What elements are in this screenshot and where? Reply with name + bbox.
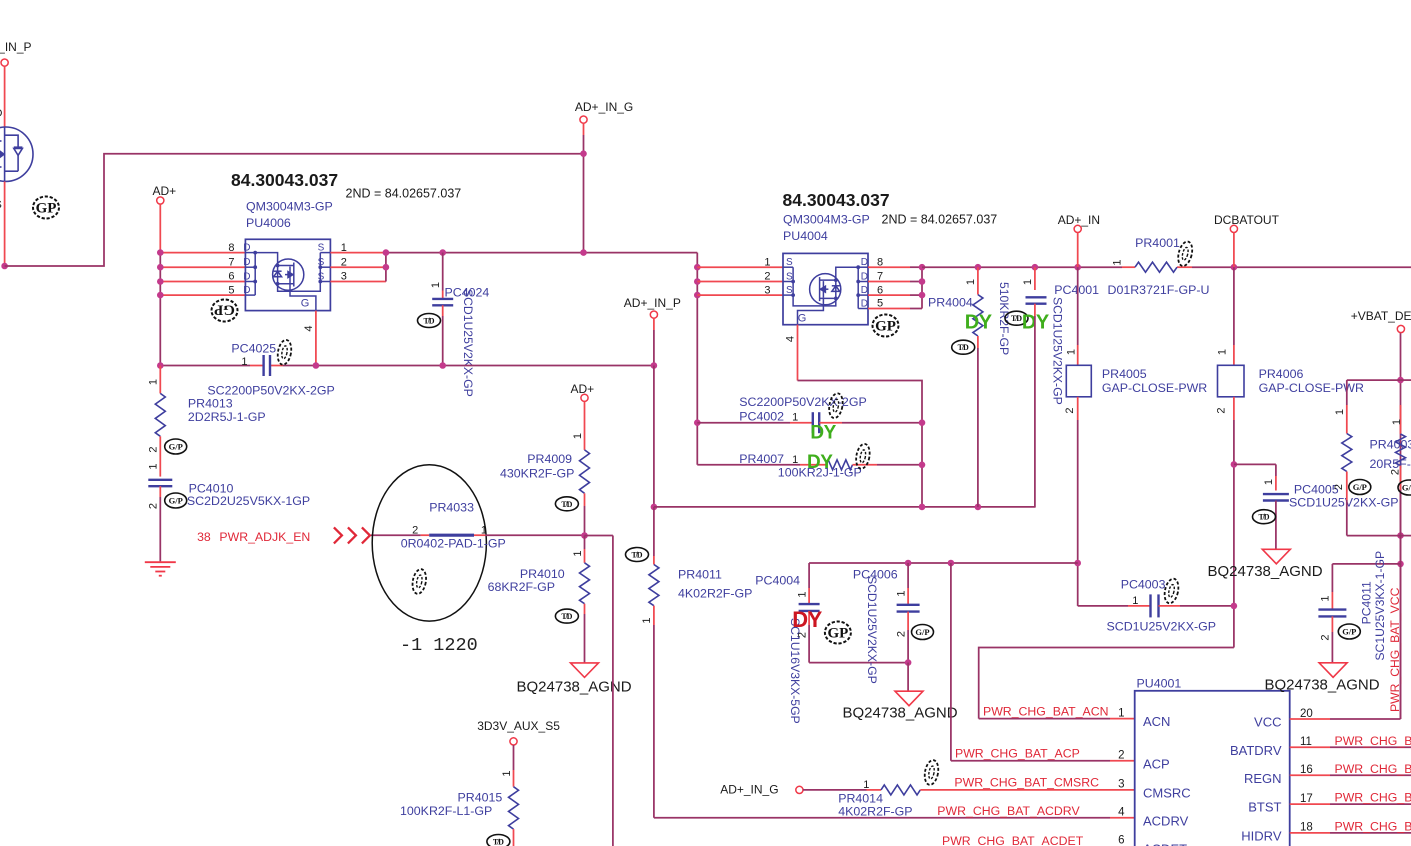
svg-text:D: D <box>861 299 868 310</box>
svg-text:D: D <box>0 108 3 120</box>
transistor PU4006 (dual MOSFET package) <box>245 239 330 310</box>
svg-text:S: S <box>318 272 325 283</box>
component PR4006 GAP-CLOSE-PWR box <box>1218 365 1245 397</box>
svg-text:PR4004: PR4004 <box>928 296 973 310</box>
svg-text:PWR_CHG_BAT_CMSRC: PWR_CHG_BAT_CMSRC <box>954 776 1099 790</box>
node junction PC4004/PC4006 bottom <box>905 659 912 666</box>
svg-text:PWR_CHG_BA: PWR_CHG_BA <box>1335 734 1411 748</box>
svg-text:DY: DY <box>965 312 993 334</box>
svg-text:1: 1 <box>1320 595 1332 601</box>
svg-text:VCC: VCC <box>1254 715 1281 730</box>
svg-text:1: 1 <box>148 463 160 469</box>
wire D-tie riser right of PU4004 <box>921 267 923 308</box>
svg-text:SCD1U25V2KX-GP: SCD1U25V2KX-GP <box>1289 496 1399 510</box>
node junction PR4006/PC4005 branch <box>1231 461 1238 468</box>
svg-text:QM3004M3-GP: QM3004M3-GP <box>783 213 870 227</box>
svg-text:D: D <box>861 272 868 283</box>
svg-text:1: 1 <box>764 256 770 268</box>
svg-text:D01R3721F-GP-U: D01R3721F-GP-U <box>1108 283 1210 297</box>
svg-text:PC4002: PC4002 <box>739 410 784 424</box>
svg-text:BQ24738_AGND: BQ24738_AGND <box>843 705 958 722</box>
wire PR4006 down <box>1233 397 1235 420</box>
svg-text:PC4003: PC4003 <box>1121 578 1166 592</box>
svg-text:2ND = 84.02657.037: 2ND = 84.02657.037 <box>882 213 998 227</box>
svg-text:1: 1 <box>481 525 487 537</box>
svg-text:T̸D: T̸D <box>561 612 572 621</box>
node junction AD+_IN_P bottom bus <box>651 504 658 511</box>
svg-text:SC2200P50V2KX-2GP: SC2200P50V2KX-2GP <box>739 395 866 409</box>
svg-text:GP: GP <box>827 626 848 642</box>
wire lower bus AD+ to AD+_IN_P column <box>160 365 250 367</box>
svg-text:S: S <box>0 199 2 211</box>
svg-text:1: 1 <box>965 279 977 285</box>
svg-text:T̸D: T̸D <box>423 317 434 326</box>
node junction PR4005/PC4006 row <box>1074 560 1081 567</box>
wire DCBATOUT down to PR4006 <box>1233 267 1235 345</box>
svg-text:PR4014: PR4014 <box>838 792 883 806</box>
wire VCC row and +VBAT riser <box>1290 718 1330 720</box>
svg-text:SC2D2U25V5KX-1GP: SC2D2U25V5KX-1GP <box>187 494 310 508</box>
svg-text:D: D <box>243 285 250 296</box>
wire riser between junctions <box>1400 536 1402 564</box>
capacitor PC4024 <box>442 253 444 291</box>
svg-text:PC4005: PC4005 <box>1294 483 1339 497</box>
svg-text:SCD1U25V2KX-GP: SCD1U25V2KX-GP <box>865 576 879 684</box>
svg-text:S: S <box>318 243 325 254</box>
svg-text:CMSRC: CMSRC <box>1143 786 1191 801</box>
svg-text:ACN: ACN <box>1143 714 1170 729</box>
svg-text:1: 1 <box>572 433 584 439</box>
svg-text:T̸D: T̸D <box>493 838 504 846</box>
svg-text:-1 1220: -1 1220 <box>400 635 478 656</box>
svg-text:PU4004: PU4004 <box>783 229 828 243</box>
svg-text:GP: GP <box>36 201 57 217</box>
svg-text:20R5F-G: 20R5F-G <box>1370 457 1411 471</box>
capacitor PC4002 <box>697 422 790 424</box>
stamp GP small PC4006 <box>912 625 934 640</box>
wire PU4006 pin2 row <box>330 266 385 268</box>
svg-text:6: 6 <box>1118 835 1124 846</box>
svg-text:1: 1 <box>148 379 160 385</box>
svg-text:D: D <box>243 272 250 283</box>
resistor PR4010 <box>584 536 586 550</box>
svg-text:PC4004: PC4004 <box>755 574 800 588</box>
svg-text:2: 2 <box>1333 484 1345 490</box>
capacitor PC4005 <box>1234 463 1276 465</box>
svg-text:AD+_IN_G: AD+_IN_G <box>575 100 633 114</box>
stamp GP PU4004 <box>873 315 899 337</box>
svg-text:PR4007: PR4007 <box>739 452 784 466</box>
svg-text:2: 2 <box>1320 634 1332 640</box>
svg-text:AD+_IN_P: AD+_IN_P <box>624 296 681 310</box>
svg-text:PR4009: PR4009 <box>527 452 572 466</box>
svg-text:2: 2 <box>1390 469 1402 475</box>
ground BQ24738_AGND (PC4011) <box>1319 663 1347 678</box>
svg-text:PWR_CHG_BAT_ACDET: PWR_CHG_BAT_ACDET <box>942 834 1084 846</box>
svg-text:T̸D: T̸D <box>1011 314 1022 323</box>
svg-text:PC4011: PC4011 <box>1359 581 1373 624</box>
stamp dashed PC4025 <box>276 339 293 366</box>
svg-text:2: 2 <box>148 446 160 452</box>
stamp GP PU4006 (rotated) <box>212 300 238 322</box>
capacitor PC4025 <box>262 355 264 376</box>
svg-text:5: 5 <box>228 284 234 296</box>
wire PU4006 pin3 row with riser <box>330 281 386 283</box>
svg-text:G/P: G/P <box>1353 482 1367 492</box>
svg-text:1: 1 <box>792 412 798 424</box>
svg-text:T̸D: T̸D <box>631 551 642 560</box>
svg-text:20: 20 <box>1300 708 1313 720</box>
stamp TD near DY <box>1005 311 1028 325</box>
resistor PR4033 (0 ohm jumper) <box>421 534 430 536</box>
node junctions S-bus rows <box>694 264 701 271</box>
resistor PR4007 <box>697 464 800 466</box>
svg-text:D: D <box>243 243 250 254</box>
svg-text:T̸D: T̸D <box>958 343 969 352</box>
node junctions D-tie <box>919 264 926 271</box>
svg-text:3: 3 <box>764 284 770 296</box>
svg-text:T̸D: T̸D <box>561 500 572 509</box>
capacitor PC4004 <box>808 563 810 588</box>
svg-text:1: 1 <box>1111 259 1123 265</box>
svg-text:68KR2F-GP: 68KR2F-GP <box>488 580 555 594</box>
svg-text:BQ24738_AGND: BQ24738_AGND <box>1208 563 1323 580</box>
stamp GP small PC4010 <box>165 493 187 508</box>
wire DCBATOUT branch to ACN <box>979 648 1234 719</box>
svg-text:GAP-CLOSE-PWR: GAP-CLOSE-PWR <box>1259 381 1364 395</box>
svg-text:2: 2 <box>148 503 160 509</box>
svg-text:SCD1U25V2KX-GP: SCD1U25V2KX-GP <box>461 289 475 397</box>
stamp GP small PR4013 <box>165 439 187 454</box>
svg-text:100KR2F-L1-GP: 100KR2F-L1-GP <box>400 804 492 818</box>
node junction AD+_IN_P lower bus <box>651 362 658 369</box>
resistor PR4011 <box>653 507 655 556</box>
svg-text:SCD1U25V2KX-GP: SCD1U25V2KX-GP <box>1051 297 1065 405</box>
stamp TD PC4024 <box>418 314 441 328</box>
svg-text:AD+_IN_P: AD+_IN_P <box>0 40 32 54</box>
stamp GP small left resistor <box>1349 480 1371 495</box>
stamp dashed PR4007 <box>854 443 871 470</box>
svg-text:BQ24738_AGND: BQ24738_AGND <box>517 679 632 696</box>
wire PR4005 down <box>1077 397 1079 420</box>
wire AD+_IN down to PR4005 <box>1077 267 1079 345</box>
transistor PU4004 (dual MOSFET package, mirrored) <box>783 253 868 324</box>
svg-text:2: 2 <box>1118 750 1124 762</box>
stamp TD PR4011 <box>626 548 649 562</box>
svg-text:PWR_CHG_BA: PWR_CHG_BA <box>1335 819 1411 833</box>
svg-text:DY: DY <box>792 607 822 632</box>
node - junctions AD+ bus at pin rows <box>157 249 164 256</box>
svg-text:HIDRV: HIDRV <box>1241 828 1282 843</box>
svg-text:PR4006: PR4006 <box>1259 367 1304 381</box>
stamp TD PC4005 <box>1253 510 1276 524</box>
svg-text:2: 2 <box>412 525 418 537</box>
wire - left MOSFET source down <box>4 182 6 267</box>
wire PU4004 left pin rows 1 2 3 <box>697 266 783 268</box>
svg-text:3D3V_AUX_S5: 3D3V_AUX_S5 <box>477 719 560 733</box>
wire main bus AD+_IN / DCBATOUT <box>922 266 1122 268</box>
svg-text:1: 1 <box>501 770 513 776</box>
svg-text:BQ24738_AGND: BQ24738_AGND <box>1265 677 1380 694</box>
svg-text:7: 7 <box>228 256 234 268</box>
svg-text:DY: DY <box>1022 312 1050 334</box>
svg-text:PR4010: PR4010 <box>520 567 565 581</box>
svg-text:GP: GP <box>875 319 896 335</box>
svg-text:PR4013: PR4013 <box>188 397 233 411</box>
svg-text:REGN: REGN <box>1244 771 1282 786</box>
svg-text:S: S <box>318 257 325 268</box>
svg-text:PWR_CHG_BA: PWR_CHG_BA <box>1335 791 1411 805</box>
ellipse highlight around PR4033 <box>372 465 486 621</box>
node junctions +VBAT riser <box>1397 377 1404 384</box>
resistor PR4004 <box>977 267 979 294</box>
svg-text:2: 2 <box>1064 407 1076 413</box>
wire PC4006 to ground <box>907 663 909 692</box>
svg-text:3: 3 <box>1118 779 1124 791</box>
svg-text:2ND = 84.02657.037: 2ND = 84.02657.037 <box>346 187 462 201</box>
node junctions on pin1/pin2 rows <box>383 249 390 256</box>
stamp dashed PR4033 <box>411 568 428 595</box>
svg-text:1: 1 <box>1065 349 1077 355</box>
svg-text:PU4006: PU4006 <box>246 216 291 230</box>
svg-text:S: S <box>786 257 793 268</box>
svg-text:2: 2 <box>764 271 770 283</box>
svg-text:2: 2 <box>895 631 907 637</box>
ground earth symbol (PC4010) <box>145 561 176 563</box>
wire DCBATOUT vertical <box>1233 233 1235 268</box>
svg-text:0R0402-PAD-1-GP: 0R0402-PAD-1-GP <box>401 537 506 551</box>
wire ACP row <box>951 760 1110 762</box>
svg-text:G/P: G/P <box>1342 627 1356 637</box>
stamp TD PR4015 <box>487 835 510 846</box>
svg-text:1: 1 <box>572 550 584 556</box>
svg-text:T̸D: T̸D <box>1258 513 1269 522</box>
svg-text:S: S <box>786 272 793 283</box>
stamp TD PR4010 <box>555 609 578 623</box>
svg-text:G/P: G/P <box>915 627 929 637</box>
svg-text:PR4001: PR4001 <box>1135 236 1180 250</box>
svg-text:AD+: AD+ <box>153 184 177 198</box>
svg-text:1: 1 <box>1391 419 1403 425</box>
svg-text:84.30043.037: 84.30043.037 <box>783 190 890 210</box>
svg-text:4K02R2F-GP: 4K02R2F-GP <box>678 587 752 601</box>
stamp TD PR4009 <box>555 497 578 511</box>
stamp dashed PC4003 <box>1163 577 1181 604</box>
svg-text:18: 18 <box>1300 822 1313 834</box>
resistor parallel left (PR4003 pair) <box>1346 380 1348 405</box>
svg-text:1: 1 <box>430 282 442 288</box>
svg-text:SC2200P50V2KX-2GP: SC2200P50V2KX-2GP <box>207 384 334 398</box>
component PR4005 GAP-CLOSE-PWR box <box>1066 365 1091 397</box>
svg-text:G/P: G/P <box>1402 483 1411 493</box>
svg-text:1: 1 <box>1022 279 1034 285</box>
transistor Q left (partial, cut by edge) <box>0 127 33 182</box>
wire - left MOSFET drain from port <box>4 66 6 127</box>
wire ACP drop <box>950 563 952 761</box>
wire AD+_IN vertical <box>1077 233 1079 268</box>
wire PU4004 gate pin4 path <box>797 325 799 381</box>
wire - from left MOSFET to AD+_IN_G column <box>5 154 584 266</box>
svg-text:1: 1 <box>796 591 808 597</box>
svg-text:GAP-CLOSE-PWR: GAP-CLOSE-PWR <box>1102 381 1207 395</box>
ground BQ24738_AGND (PC4006) <box>895 691 923 706</box>
wire PR4033 node to ACN riser <box>585 535 613 537</box>
svg-text:BTST: BTST <box>1248 800 1281 815</box>
svg-text:1: 1 <box>1132 595 1138 607</box>
svg-text:1: 1 <box>792 454 798 466</box>
svg-text:4K02R2F-GP: 4K02R2F-GP <box>838 805 912 819</box>
svg-text:G: G <box>798 313 807 325</box>
wire BATDRV/REGN/BTST/HIDRV rows <box>1290 746 1330 748</box>
capacitor PC4001 <box>1034 267 1036 290</box>
svg-text:SC1U25V3KX-1-GP: SC1U25V3KX-1-GP <box>1373 551 1387 661</box>
svg-text:1: 1 <box>895 590 907 596</box>
wire PU4006 pin1 row to PU4004 S-bus <box>330 252 386 254</box>
stamp GP left MOSFET <box>33 197 59 219</box>
resistor PR4015 <box>513 745 515 770</box>
svg-text:G/P: G/P <box>169 496 183 506</box>
wire AD+_IN_P vertical <box>653 318 655 330</box>
stamp TD PR4004 <box>952 340 975 354</box>
svg-text:8: 8 <box>228 242 234 254</box>
stamp GP PC4004 <box>825 622 851 644</box>
capacitor PC4010 <box>148 479 172 481</box>
svg-text:PWR_CHG_BA: PWR_CHG_BA <box>1335 762 1411 776</box>
svg-text:100KR2J-1-GP: 100KR2J-1-GP <box>778 466 862 480</box>
chevrons PWR_ADJK_EN <box>334 527 342 543</box>
wire AD+_IN_P down to bottom bus and PR4011 <box>653 366 655 507</box>
svg-text:1: 1 <box>1118 707 1124 719</box>
svg-text:430KR2F-GP: 430KR2F-GP <box>500 467 574 481</box>
wire PU4006 gate pin 4 down to bus <box>315 311 317 366</box>
svg-text:1: 1 <box>641 617 653 623</box>
svg-text:2D2R5J-1-GP: 2D2R5J-1-GP <box>188 410 266 424</box>
svg-text:84.30043.037: 84.30043.037 <box>231 170 338 190</box>
svg-text:PR4003: PR4003 <box>1370 438 1411 452</box>
svg-text:BATDRV: BATDRV <box>1230 743 1282 758</box>
node - junction at left edge <box>1 263 8 270</box>
svg-text:AD+: AD+ <box>571 382 595 396</box>
node junctions PC4002 row <box>919 419 926 426</box>
svg-text:38: 38 <box>197 530 211 544</box>
svg-text:2: 2 <box>1215 407 1227 413</box>
wire PC4004/PC4006 top row <box>809 562 1078 564</box>
svg-text:6: 6 <box>228 271 234 283</box>
node junctions main bus <box>975 264 982 271</box>
svg-text:ACDET: ACDET <box>1143 841 1187 846</box>
svg-text:QM3004M3-GP: QM3004M3-GP <box>246 200 333 214</box>
svg-text:PWR_CHG_BAT_ACP: PWR_CHG_BAT_ACP <box>955 747 1080 761</box>
stamp dashed PC4002 <box>827 392 844 419</box>
ground BQ24738_AGND (PC4005) <box>1262 549 1290 564</box>
svg-text:GP: GP <box>214 301 235 317</box>
svg-text:G: G <box>301 298 310 310</box>
stamp GP small PR4003 (cut) <box>1398 480 1411 495</box>
node junctions bottom bus <box>919 504 926 511</box>
svg-text:S: S <box>786 285 793 296</box>
wire ACDRV row from PR4011 <box>654 817 1110 819</box>
svg-text:ACDRV: ACDRV <box>1143 813 1189 828</box>
wire PWR_ADJK_EN to PR4033 <box>371 534 421 536</box>
svg-text:11: 11 <box>1300 736 1312 748</box>
svg-text:4: 4 <box>785 336 797 342</box>
svg-text:PR4011: PR4011 <box>678 568 722 582</box>
resistor PR4013 <box>159 366 161 394</box>
stamp dashed PR4014 <box>923 759 940 786</box>
svg-text:PWR_ADJK_EN: PWR_ADJK_EN <box>219 530 310 544</box>
stamp dashed PR4001 <box>1176 240 1195 267</box>
wire VCC riser lower part <box>1400 564 1402 719</box>
svg-text:PC4001: PC4001 <box>1054 283 1099 297</box>
svg-text:AD+_IN_G: AD+_IN_G <box>720 783 778 797</box>
svg-text:+VBAT_DET: +VBAT_DET <box>1351 309 1411 323</box>
svg-text:17: 17 <box>1300 793 1313 805</box>
capacitor PC4011 <box>1331 564 1333 592</box>
svg-text:PR4005: PR4005 <box>1102 367 1147 381</box>
svg-text:4: 4 <box>1118 807 1125 819</box>
svg-text:PR4015: PR4015 <box>458 791 503 805</box>
svg-text:DY: DY <box>810 423 836 444</box>
svg-text:D: D <box>243 257 250 268</box>
wire AD+ vertical bus <box>159 204 161 253</box>
wire bottom bus <box>654 506 1036 508</box>
svg-text:PWR_CHG_BAT_ACN: PWR_CHG_BAT_ACN <box>983 705 1109 719</box>
svg-text:16: 16 <box>1300 764 1313 776</box>
wire PC4011 branch <box>1332 563 1400 565</box>
svg-text:D: D <box>861 285 868 296</box>
node junctions on lower bus <box>157 362 164 369</box>
svg-text:2: 2 <box>796 632 808 638</box>
svg-text:SCD1U25V2KX-GP: SCD1U25V2KX-GP <box>1107 620 1217 634</box>
wire PU4004 right pin rows <box>868 266 910 268</box>
svg-text:4: 4 <box>303 325 315 331</box>
wire AD+_IN_G vertical <box>583 123 585 135</box>
wire PR4005 to PC4003 corner <box>1077 563 1079 606</box>
svg-text:PR4033: PR4033 <box>429 501 474 515</box>
node junctions top row <box>905 560 912 567</box>
svg-text:1: 1 <box>1334 409 1346 415</box>
stamp GP small PC4011 <box>1338 624 1360 639</box>
node junction PR4007 row right <box>919 462 926 469</box>
svg-text:G/P: G/P <box>169 442 183 452</box>
capacitor PC4003 <box>1078 605 1128 607</box>
node junction PC4003 / PR4006 line <box>1231 603 1238 610</box>
svg-text:1: 1 <box>241 356 247 368</box>
resistor PR4009 <box>584 401 586 450</box>
wire PC4004 bottom to PC4006 <box>809 662 908 664</box>
svg-text:PU4001: PU4001 <box>1137 677 1182 691</box>
svg-text:510KR2F-GP: 510KR2F-GP <box>997 282 1011 355</box>
svg-text:PC4025: PC4025 <box>231 342 276 356</box>
svg-text:PWR_CHG_BAT_ACDRV: PWR_CHG_BAT_ACDRV <box>937 804 1080 818</box>
wire - PU4006 left pin rows (D pins 8,7,6,5) <box>160 252 245 254</box>
svg-text:DCBATOUT: DCBATOUT <box>1214 213 1280 227</box>
resistor PR4014 <box>803 789 867 791</box>
capacitor PC4006 <box>907 563 909 588</box>
node - junction AD+_IN_G / horizontal feed <box>580 150 587 157</box>
svg-text:1: 1 <box>863 779 869 791</box>
ground BQ24738_AGND (PR4010) <box>571 663 599 678</box>
wire parallel resistor rows <box>1347 379 1401 381</box>
svg-text:1: 1 <box>1217 349 1229 355</box>
svg-text:D: D <box>861 257 868 268</box>
svg-text:ACP: ACP <box>1143 756 1170 771</box>
wire ACN row <box>979 718 1110 720</box>
wire S-bus AD+_IN_P column (left of PU4004) <box>696 253 698 465</box>
svg-text:1: 1 <box>1263 479 1275 485</box>
node junction PR4009/PR4010/PR4033 <box>581 532 588 539</box>
